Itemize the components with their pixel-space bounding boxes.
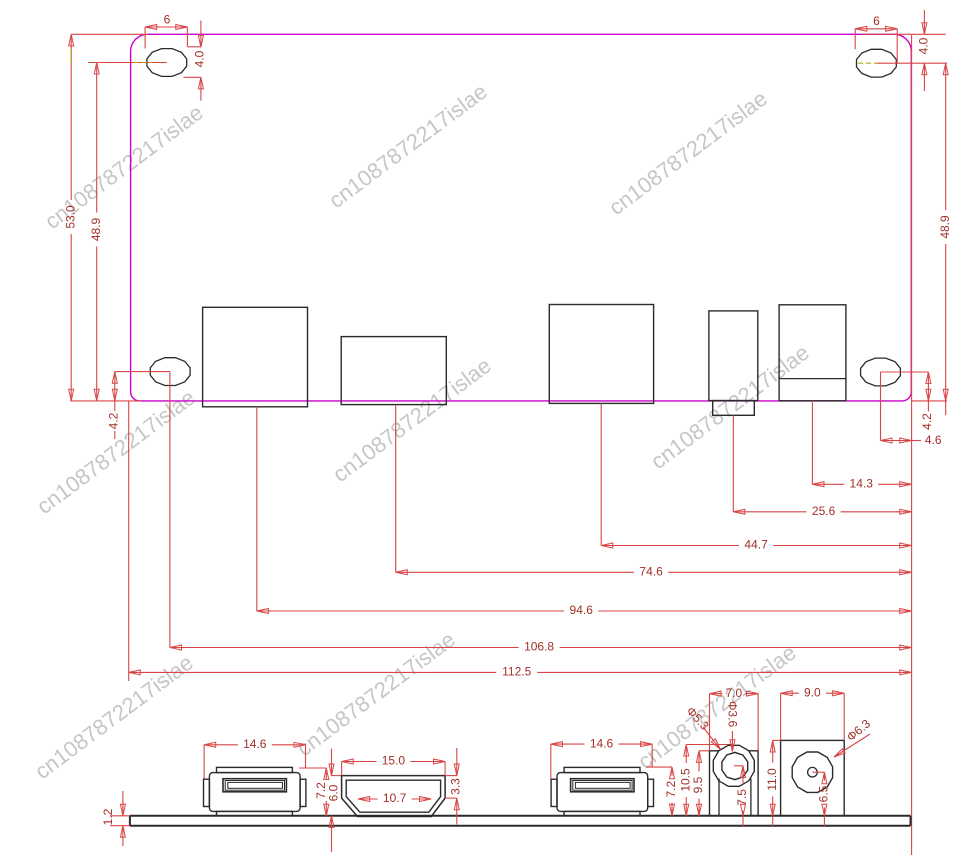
dimension 94.6 (257, 603, 912, 617)
dimension 9.5 (691, 751, 709, 816)
board outline (131, 34, 912, 401)
svg-text:7.0: 7.0 (725, 686, 742, 700)
dimension 9.0 (781, 685, 845, 740)
svg-text:4.0: 4.0 (192, 50, 206, 67)
svg-text:48.9: 48.9 (89, 217, 103, 241)
svg-text:106.8: 106.8 (524, 640, 554, 654)
svg-text:7.5: 7.5 (735, 789, 749, 806)
mounting hole TL (147, 49, 187, 77)
dimension 14.6 (551, 736, 652, 779)
dimension 11.0 (765, 740, 781, 826)
dimension 14.3 (812, 476, 911, 490)
svg-text:14.3: 14.3 (850, 476, 874, 490)
svg-text:48.9: 48.9 (938, 215, 952, 239)
mounting hole BL (150, 358, 190, 386)
centerline dash hole TL (133, 62, 152, 64)
svg-text:6: 6 (873, 14, 880, 28)
dimension 4.6 (881, 433, 942, 447)
dimension 10.7 (358, 791, 431, 805)
svg-text:6: 6 (164, 13, 171, 27)
dimension 48.9 (876, 63, 951, 415)
svg-text:15.0: 15.0 (382, 754, 406, 768)
board side view bar (130, 816, 911, 826)
extension line hole BR center (880, 372, 882, 441)
extension line DC center (811, 401, 813, 485)
watermark grid (30, 79, 814, 784)
dimension 14.6 (204, 737, 305, 779)
dimension 112.5 (129, 665, 912, 679)
dimension 10.5 (678, 745, 733, 816)
extension line board right edge (911, 35, 913, 855)
svg-text:3.3: 3.3 (449, 778, 463, 795)
dimension 48.9 (88, 63, 167, 401)
dimension 6 right (855, 14, 897, 63)
USB port 1 side view (204, 767, 306, 815)
svg-text:4.2: 4.2 (920, 413, 934, 430)
mounting hole TR (857, 49, 897, 77)
svg-text:11.0: 11.0 (765, 768, 779, 791)
dimension 44.7 (601, 538, 911, 552)
svg-text:6.5: 6.5 (817, 785, 831, 802)
svg-text:Φ3.6: Φ3.6 (726, 701, 740, 728)
centerline dash 53.0 (70, 50, 72, 64)
svg-text:7.2: 7.2 (664, 781, 678, 798)
USB port 2 side view (551, 767, 653, 815)
dimension 7.0 (710, 686, 759, 751)
DC jack side view (781, 740, 845, 815)
dimension 1.2 (101, 791, 130, 846)
svg-text:4.0: 4.0 (916, 37, 930, 54)
svg-text:4.2: 4.2 (106, 412, 120, 429)
HDMI port top view (341, 337, 446, 405)
dimension 6 left (145, 13, 187, 49)
svg-text:74.6: 74.6 (639, 564, 663, 578)
audio jack top view (709, 311, 758, 415)
DC jack top view (779, 305, 846, 401)
dimension 15.0 (342, 754, 446, 776)
label Φ5.3 (684, 704, 721, 749)
extension line audio center (732, 415, 734, 512)
HDMI port side view (342, 776, 446, 817)
extension line hole BL center (169, 372, 171, 648)
USB port 2 top view (549, 305, 653, 404)
dimension 4.2 right (881, 372, 935, 430)
dimension 6.5 (812, 772, 830, 826)
dimension 7.2 (646, 767, 678, 816)
dimension 4.0 right (862, 10, 946, 91)
svg-text:9.5: 9.5 (691, 776, 705, 793)
dimension 74.6 (396, 564, 912, 578)
centerline dash hole TR (858, 62, 876, 64)
dimension 53.0 (63, 34, 148, 401)
label Φ3.6 (726, 701, 740, 752)
dimension 4.0 left (184, 21, 207, 101)
svg-text:25.6: 25.6 (812, 504, 836, 518)
svg-text:94.6: 94.6 (570, 603, 594, 617)
svg-text:6.0: 6.0 (327, 784, 341, 801)
dimension 7.5 (734, 766, 749, 826)
svg-text:44.7: 44.7 (744, 538, 768, 552)
dimension 7.2 left (299, 768, 328, 816)
svg-text:53.0: 53.0 (63, 205, 77, 229)
svg-text:14.6: 14.6 (590, 736, 614, 750)
extension line HDMI center (395, 405, 397, 573)
svg-text:10.7: 10.7 (383, 791, 407, 805)
dimension 3.3 (445, 748, 462, 824)
svg-text:9.0: 9.0 (804, 685, 821, 699)
dimension 4.2 left (106, 372, 170, 439)
audio jack side view (710, 745, 759, 816)
extension line USB2 center (600, 403, 602, 545)
label Φ6.3 (834, 716, 873, 757)
extension line USB1 center (256, 407, 258, 611)
dimension 25.6 (733, 504, 911, 518)
dimension 6.0 (327, 749, 342, 852)
svg-text:14.6: 14.6 (243, 737, 267, 751)
dimension 106.8 (170, 640, 911, 654)
svg-text:112.5: 112.5 (502, 665, 531, 679)
svg-text:4.6: 4.6 (925, 433, 942, 447)
USB port 1 top view (203, 307, 308, 407)
extension line board left edge (128, 401, 130, 681)
mounting hole BR (861, 358, 901, 386)
svg-text:1.2: 1.2 (101, 808, 115, 825)
